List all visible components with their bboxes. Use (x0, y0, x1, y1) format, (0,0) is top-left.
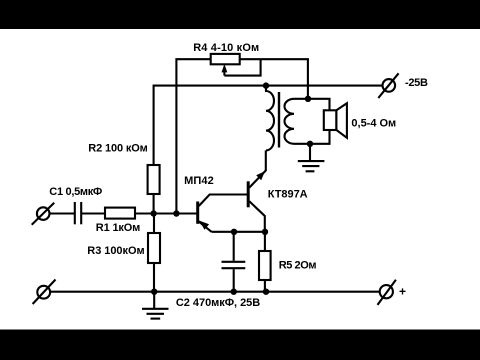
wire -25V rail (153, 85, 383, 87)
speaker LS1 (324, 103, 347, 138)
node R5 bottom (263, 289, 269, 295)
svg-text:С2 470мкФ, 25В: С2 470мкФ, 25В (176, 297, 260, 309)
wire emitter rail Q1-Q2 (212, 231, 266, 233)
svg-text:R1 1кОм: R1 1кОм (96, 222, 141, 234)
terminal bottom left (33, 280, 56, 305)
svg-text:МП42: МП42 (184, 175, 214, 187)
svg-text:+: + (399, 285, 406, 299)
wire bottom rail (50, 291, 380, 293)
wire R2 bottom lead (153, 194, 155, 214)
wire input to C1 (50, 212, 75, 214)
transformer core (278, 92, 280, 148)
wire secondary bottom to speaker (294, 130, 330, 144)
svg-text:0,5-4 Ом: 0,5-4 Ом (351, 117, 396, 129)
node secondary bottom / ground (307, 141, 313, 147)
capacitor C1 (75, 202, 81, 224)
node base-R2-R3 junction (150, 210, 156, 216)
wire R3 top lead (153, 214, 155, 234)
node base-R4 junction (173, 210, 179, 216)
resistor R5 (259, 232, 271, 292)
transistor Q2 KT897A (248, 171, 266, 232)
transformer T1 primary winding (266, 86, 274, 151)
wire C1 to R1 (81, 212, 105, 214)
node R5 top / Q2 collector (262, 229, 268, 235)
node C2 bottom (231, 289, 237, 295)
svg-text:R4 4-10 кОм: R4 4-10 кОм (193, 42, 259, 54)
wire R4 right lead (240, 59, 308, 99)
svg-text:С1 0,5мкФ: С1 0,5мкФ (49, 186, 102, 198)
ground right (298, 144, 325, 172)
node primary top on -25V rail (263, 82, 269, 88)
transistor Q1 MP42 (198, 195, 247, 232)
resistor R3 (148, 233, 160, 263)
svg-text:КТ897А: КТ897А (268, 188, 308, 200)
wire Q2 emitter to primary (265, 150, 267, 171)
wire R2 top to -25V rail (153, 86, 155, 165)
wire secondary top to speaker (294, 99, 330, 111)
node ground junction (151, 289, 157, 295)
ground left (142, 292, 169, 319)
wire R3 bottom lead (153, 263, 155, 292)
node C2 top (231, 229, 237, 235)
R4 wiper arrow (222, 59, 261, 75)
terminal + (378, 280, 396, 305)
svg-text:R3 100кОм: R3 100кОм (87, 245, 144, 257)
potentiometer R4 (211, 54, 240, 64)
svg-text:-25В: -25В (405, 77, 428, 89)
node secondary top / R4 feedback (305, 96, 311, 102)
terminal -25V (378, 73, 398, 98)
resistor R2 (148, 165, 160, 194)
wire R4 left lead (176, 59, 210, 213)
svg-text:R5 2Ом: R5 2Ом (279, 259, 317, 271)
input terminal X1 (32, 203, 55, 225)
svg-text:R2 100 кОм: R2 100 кОм (88, 143, 148, 155)
wire R1 to Q1 base (135, 212, 198, 214)
transformer T1 secondary winding (285, 99, 295, 144)
capacitor C2 (222, 232, 246, 292)
resistor R1 (105, 208, 135, 219)
